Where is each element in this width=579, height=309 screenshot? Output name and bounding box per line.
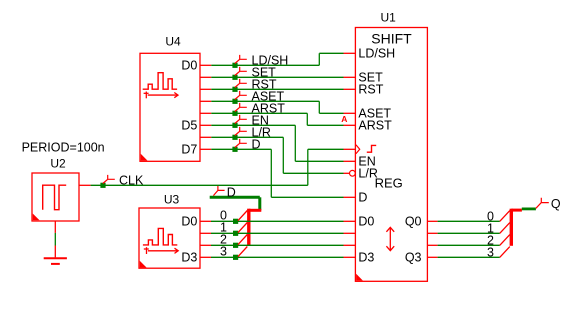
svg-text:D5: D5 [181, 119, 197, 133]
svg-text:LD/SH: LD/SH [358, 47, 395, 61]
svg-text:CLK: CLK [119, 174, 144, 188]
svg-text:U1: U1 [381, 11, 397, 25]
svg-text:PERIOD=100n: PERIOD=100n [22, 141, 105, 155]
svg-text:D0: D0 [181, 215, 197, 229]
svg-text:D: D [252, 137, 261, 151]
svg-text:D0: D0 [181, 59, 197, 73]
svg-text:3: 3 [487, 245, 494, 259]
svg-text:D0: D0 [358, 215, 374, 229]
svg-text:D: D [358, 191, 367, 205]
svg-text:U2: U2 [50, 157, 66, 171]
svg-text:U4: U4 [165, 35, 181, 49]
svg-text:D7: D7 [181, 143, 197, 157]
svg-text:RST: RST [358, 83, 383, 97]
svg-text:U3: U3 [164, 193, 180, 207]
svg-text:ARST: ARST [358, 119, 392, 133]
svg-text:Q: Q [551, 197, 561, 211]
svg-text:REG: REG [375, 175, 403, 190]
svg-text:A: A [341, 114, 347, 124]
svg-text:L/R: L/R [358, 167, 377, 181]
svg-text:Q0: Q0 [405, 215, 422, 229]
svg-text:D: D [227, 185, 236, 199]
svg-text:3: 3 [220, 245, 227, 259]
svg-text:SHIFT: SHIFT [371, 31, 412, 47]
svg-text:D3: D3 [181, 251, 197, 265]
svg-text:Q3: Q3 [405, 251, 422, 265]
svg-text:D3: D3 [358, 251, 374, 265]
